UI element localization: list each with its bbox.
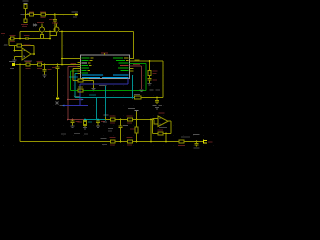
- resistor R18 feedback: [158, 132, 163, 135]
- IC right pin stubs: [130, 59, 134, 72]
- junction cap tap x57.5: [57, 64, 59, 66]
- junction cap tap x44.5: [44, 64, 46, 66]
- green net left pin y68.5: [70, 71, 77, 90]
- R9 labels: [37, 61, 43, 62]
- pull resistor R10 x149.5: [149, 61, 151, 71]
- cap labels: [153, 105, 157, 106]
- wire rail into noninverting input: [154, 120, 158, 125]
- R3 label: [40, 11, 46, 12]
- wire inverting input from feedback: [153, 117, 159, 119]
- ground C5: [71, 126, 75, 129]
- wire U1 output stub: [31, 53, 34, 55]
- left rail maroon y119.5: [68, 119, 85, 121]
- op-amp U1: [22, 48, 31, 60]
- wire inverting input: [15, 46, 23, 51]
- junction inv input: [14, 50, 16, 52]
- ground C6: [96, 126, 100, 129]
- wire Q1 emitter down: [41, 32, 43, 35]
- label above green component: [78, 87, 83, 88]
- resistor R17 on bottom bus: [128, 140, 133, 143]
- U1 plus minus marks: [24, 51, 26, 58]
- R13 labels: [110, 115, 116, 116]
- U3 plus minus marks: [159, 118, 160, 124]
- R19 label: [178, 145, 185, 146]
- R17 label: [127, 137, 133, 138]
- junction x85: [84, 119, 86, 121]
- power symbol +V top left: [24, 4, 28, 5]
- wire R1 to node: [25, 9, 27, 14]
- R6 labels: [10, 35, 16, 36]
- output port connector: [204, 140, 208, 144]
- junction x151 bottom: [150, 141, 152, 143]
- R14 labels: [127, 115, 133, 116]
- ground op-amp input: [13, 60, 17, 63]
- junction x151 top: [150, 119, 152, 121]
- U1 part label: [24, 60, 32, 61]
- resistor R9 on rail: [38, 63, 42, 66]
- bottom bus wire y141.5: [20, 141, 203, 143]
- wire corner x20 into bus: [19, 32, 21, 39]
- wire between Q1 Q2: [44, 31, 54, 33]
- C8 label: [123, 125, 128, 126]
- feedback riser left: [152, 118, 154, 133]
- C4 label: [52, 67, 56, 68]
- teal-yellow node resistor R11: [135, 96, 142, 99]
- wire x50 down to bus: [49, 32, 51, 39]
- junction maroon corner: [67, 119, 69, 121]
- resistor R19 on bus: [179, 140, 184, 143]
- cap C7 at rail left end going up: [105, 117, 107, 119]
- junction feedback to bus: [165, 133, 167, 135]
- wire base line y31 left: [20, 31, 40, 33]
- green net bottom run y90: [70, 89, 146, 91]
- resistor R1 vertical: [24, 5, 27, 9]
- yellow net y61 to right: [134, 61, 164, 98]
- teal net left pin y73.5: [75, 74, 77, 98]
- bus wire y38.5: [9, 38, 50, 40]
- C9 labels: [193, 134, 200, 135]
- GND text: [84, 84, 90, 85]
- test point port TP1: [56, 97, 66, 106]
- C7 label: [104, 115, 109, 116]
- U2 top tick: [104, 53, 106, 55]
- junction x62 y31.5: [61, 31, 63, 33]
- resistor R8 on rail: [26, 63, 30, 66]
- junction x136.5: [136, 119, 138, 121]
- transistor Q1: [40, 24, 45, 32]
- capacitor at x157 to ground: [155, 98, 159, 105]
- resistor R2: [30, 13, 34, 16]
- wire feedback down to bus: [165, 134, 167, 142]
- resistor R16 on bottom bus: [111, 140, 116, 143]
- U2 right pin name rows: [113, 58, 129, 72]
- ground below cap: [148, 84, 152, 87]
- C3 label: [48, 69, 52, 70]
- ground C3: [43, 75, 47, 78]
- power label text: [23, 1, 29, 2]
- net label above bus right: [181, 136, 190, 137]
- navy net IC bottom: [64, 79, 128, 106]
- label above component: [84, 78, 89, 79]
- capacitor C1 plates: [53, 20, 57, 22]
- R11 label: [134, 94, 140, 95]
- feedback bottom wire: [153, 133, 172, 135]
- capacitor C6 x98: [96, 120, 100, 126]
- yellow path under IC to ground: [73, 80, 94, 88]
- junction x50 y31.5: [49, 31, 51, 33]
- teal riser x105.5: [105, 86, 107, 120]
- IC U2 body: [81, 55, 130, 79]
- junction x20 y38.5: [19, 38, 21, 40]
- power label above: [150, 89, 154, 90]
- capacitor C4: [56, 65, 60, 69]
- wire Q2 emitter to node: [50, 32, 57, 36]
- off-sheet chevron symbol: [33, 24, 37, 26]
- U2 bottom cyan bus rows: [82, 74, 129, 78]
- right ladder end vertical x151: [150, 120, 152, 142]
- capacitor C2 series on bus: [26, 37, 28, 40]
- wire feedback top: [9, 46, 34, 55]
- wire power to rail: [136, 112, 138, 120]
- R18 label: [158, 130, 164, 131]
- input port on main rail: [9, 61, 15, 69]
- capacitor below R10: [148, 76, 152, 84]
- resistor R5 vertical: [41, 35, 44, 39]
- U2 left pin net labels: [70, 58, 76, 72]
- cap at bus left of ladder: [108, 128, 113, 129]
- ground X1: [83, 128, 87, 131]
- power label: [128, 108, 135, 109]
- capacitor C9 at output: [195, 142, 199, 147]
- U2 left pin stubs: [78, 63, 81, 74]
- teal vertical from IC bottom: [132, 75, 134, 98]
- resistor R13 on top rail: [111, 118, 116, 121]
- capacitor C5 x72.5: [71, 120, 75, 126]
- crystal X1: [83, 120, 87, 128]
- R10 label: [153, 70, 158, 71]
- ground x157: [155, 108, 159, 111]
- maroon net right pin y66: [130, 66, 142, 89]
- right ladder top rail y119.5: [106, 119, 155, 121]
- junction x157 y97.5: [156, 97, 158, 99]
- junction on y14.5 at x50: [54, 14, 56, 16]
- component on green net: [78, 89, 83, 92]
- resistor R7 feedback: [17, 44, 22, 47]
- Q1 label: [37, 22, 44, 23]
- capacitor C8 bridging rails: [119, 120, 123, 142]
- teal junction on rail: [105, 119, 107, 121]
- resistor R4 vertical: [24, 19, 27, 23]
- maroon net left pin y66: [68, 67, 78, 120]
- junction x120.5 top rail: [120, 119, 122, 121]
- wire teal node to R11: [130, 97, 135, 99]
- teal junction x132.5: [132, 97, 134, 99]
- U3 refdes: [159, 113, 165, 114]
- long left vertical wire: [19, 65, 21, 142]
- U2 refdes: [101, 52, 108, 53]
- resistor R6 on bus: [11, 37, 15, 40]
- wire long collector line to right: [59, 31, 134, 33]
- series component on yellow path: [78, 79, 83, 82]
- main rail wire y65: [16, 64, 78, 66]
- resistor R14 on top rail: [128, 118, 133, 121]
- left rail teal y119.5: [85, 119, 106, 121]
- wire U3 output: [168, 121, 171, 133]
- wire R11 to corner: [141, 97, 163, 99]
- dim labels above bottom bus left: [61, 133, 88, 135]
- resistor R15 vertical x136.5: [135, 127, 138, 133]
- C5 label: [76, 121, 80, 122]
- wire horizontal net y=14.5: [26, 14, 76, 16]
- X1 labels: [78, 121, 83, 122]
- wire feedback left riser: [8, 39, 10, 46]
- C2 label: [24, 35, 30, 36]
- Q2 label: [52, 22, 58, 23]
- junction x120.5 bottom: [120, 141, 122, 143]
- op-amp U3: [158, 116, 168, 127]
- junction x98: [97, 119, 99, 121]
- R2 label: [29, 11, 34, 12]
- transistor Q2: [54, 24, 59, 32]
- yellow pin number text right: [135, 59, 140, 60]
- wire noninverting input: [15, 57, 23, 60]
- ground maroon net: [140, 90, 144, 93]
- R3 value: [41, 17, 46, 18]
- green net right pin y63.5: [130, 64, 147, 91]
- node label text left: [4, 44, 8, 45]
- junction x72.5: [72, 119, 74, 121]
- ground under IC: [92, 88, 96, 91]
- wire node down to R4: [25, 16, 27, 20]
- junction x166 bus: [165, 141, 167, 143]
- U2 left pin name rows: [82, 58, 94, 74]
- R4 labels: [21, 24, 28, 25]
- power symbol feed x136.5: [135, 111, 139, 112]
- page label left edge: [1, 33, 5, 34]
- C6 label: [101, 121, 105, 122]
- R16 label: [110, 137, 116, 138]
- resistor R3: [41, 13, 46, 16]
- R15 label: [130, 128, 135, 129]
- R15 wires: [136, 120, 138, 142]
- wire corner down to IC right pin: [130, 32, 134, 59]
- cap label: [153, 79, 158, 80]
- junction x136.5 bottom: [136, 141, 138, 143]
- capacitor C3 to ground: [43, 65, 47, 75]
- node A junction cluster: [21, 13, 30, 15]
- C1 label: [49, 19, 53, 20]
- wire C4 down to test point: [57, 68, 59, 97]
- maroon net label: [133, 64, 140, 65]
- wire IC pin1 from left x62: [62, 32, 81, 65]
- yellow net left pin y71: [73, 69, 78, 81]
- junction x196.5: [196, 141, 198, 143]
- U1 refdes: [24, 45, 31, 46]
- R8 labels: [25, 61, 31, 62]
- wire cap branch x50: [54, 15, 56, 32]
- junction x20 y65: [19, 64, 21, 66]
- port arrow right end of y14.5 net: [72, 11, 79, 17]
- teal net horizontal y97.5: [75, 98, 130, 120]
